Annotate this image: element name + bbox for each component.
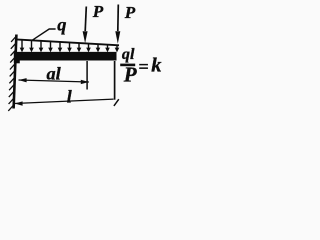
svg-text:=: =: [138, 57, 148, 77]
svg-text:P: P: [92, 2, 104, 21]
svg-text:al: al: [46, 63, 61, 83]
svg-text:P: P: [124, 3, 136, 22]
svg-text:k: k: [151, 55, 162, 77]
svg-text:q: q: [57, 15, 66, 35]
svg-text:l: l: [67, 87, 72, 107]
svg-text:P: P: [123, 63, 137, 87]
svg-text:ql: ql: [122, 46, 135, 63]
